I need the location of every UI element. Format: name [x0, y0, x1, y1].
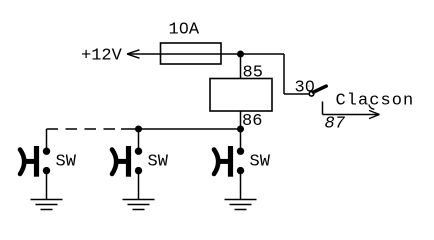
junction node bus at switch 2: [135, 126, 142, 133]
wire fuse to junction: [221, 53, 241, 55]
arrowhead to clacson: [369, 110, 380, 118]
svg-text:87: 87: [325, 115, 346, 134]
wire contact 87 down: [322, 102, 324, 115]
bus wire solid segment: [121, 128, 241, 130]
wire SW2 to ground: [138, 173, 140, 200]
pushbutton SW3: [214, 146, 271, 177]
wire 87 to clacson arrow: [323, 114, 380, 116]
relay contact lever: [313, 86, 326, 92]
c tail mark of Clacson: [369, 105, 375, 110]
pushbutton SW1: [20, 146, 77, 177]
svg-text:10A: 10A: [169, 21, 200, 40]
wire +12V arrow to fuse: [128, 53, 161, 55]
SW2 bottom contact: [135, 167, 142, 174]
relay contact pivot: [309, 92, 314, 97]
SW3 plunger stem: [219, 159, 229, 164]
relay K1 coil box: [210, 79, 272, 112]
SW1 plunger bar: [34, 146, 39, 177]
wire SW3 to ground: [240, 173, 242, 200]
svg-text:SW: SW: [250, 153, 271, 172]
wire bus junction to switch 3: [240, 129, 242, 149]
wire corner down to switch 1: [46, 129, 48, 149]
SW1 plunger stem: [25, 159, 35, 164]
wire relay pin 86 to bus: [240, 111, 242, 129]
SW1 top contact: [43, 148, 50, 155]
wire down to contact 30: [283, 54, 285, 94]
SW3 plunger bar: [228, 146, 233, 177]
SW1 button cap: [20, 150, 24, 175]
SW3 top contact: [237, 148, 244, 155]
junction node fuse output: [237, 51, 244, 58]
svg-text:86: 86: [242, 112, 262, 131]
SW1 bottom contact: [43, 167, 50, 174]
fuse F1 body: [161, 43, 222, 64]
SW2 button cap: [112, 150, 116, 175]
wire through fuse: [161, 53, 222, 55]
arrowhead to +12V supply: [127, 50, 140, 58]
SW3 button cap: [214, 150, 218, 175]
SW2 plunger bar: [126, 146, 131, 177]
SW2 plunger stem: [117, 159, 127, 164]
svg-text:SW: SW: [56, 153, 77, 172]
wire SW1 to ground: [46, 173, 48, 200]
svg-text:+12V: +12V: [81, 47, 123, 66]
wire junction to relay pin 85: [240, 54, 242, 79]
SW2 top contact: [135, 148, 142, 155]
dashed bus wire to switch 1: [47, 128, 123, 130]
ground symbol 2: [123, 200, 155, 210]
ground symbol 1: [31, 200, 63, 210]
wire junction to contact branch: [241, 53, 285, 55]
ground symbol 3: [225, 200, 257, 210]
junction node bus at switch 3: [237, 126, 244, 133]
svg-text:SW: SW: [148, 153, 169, 172]
SW3 bottom contact: [237, 167, 244, 174]
svg-text:85: 85: [243, 64, 263, 83]
wire bus junction to switch 2: [138, 129, 140, 149]
svg-text:Clacson: Clacson: [336, 92, 415, 111]
wire to relay contact pivot: [284, 93, 309, 95]
pushbutton SW2: [112, 146, 169, 177]
